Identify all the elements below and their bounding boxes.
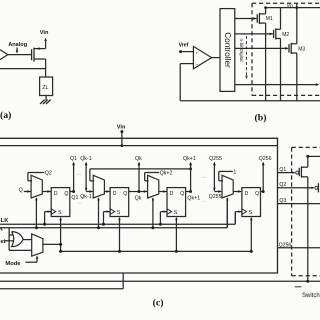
wire mux output to D input	[233, 191, 241, 193]
wire op-amp output to controller	[212, 57, 220, 59]
svg-text:D: D	[170, 191, 174, 197]
node rail junction M1	[264, 6, 267, 9]
wire mux output to D input	[159, 191, 167, 193]
svg-text:Q2: Q2	[45, 170, 52, 176]
wire buffer output to gate	[8, 54, 32, 56]
wire Qk to mux3	[139, 191, 147, 193]
wire ZL to ground	[45, 96, 47, 101]
wire backward input 1	[219, 170, 233, 172]
svg-text:...: ...	[78, 200, 83, 206]
node switch rail junction	[306, 155, 309, 158]
svg-text:(a): (a)	[0, 110, 11, 121]
wire source down to load ZL	[45, 48, 47, 50]
svg-text:Vin: Vin	[287, 3, 294, 8]
OR gate	[12, 232, 24, 247]
wire controller output to M1 gate	[235, 18, 257, 20]
wire mode select into mux5	[36, 257, 38, 263]
power rail Vin part b	[266, 7, 320, 9]
svg-text:M2: M2	[282, 32, 289, 38]
svg-text:Qk+1: Qk+1	[187, 195, 200, 201]
svg-text:S: S	[174, 210, 178, 216]
clock pin triangle	[51, 209, 56, 215]
node rail junction M3	[295, 6, 298, 9]
set bus line	[61, 250, 252, 252]
wire Vref to op-amp	[181, 51, 194, 53]
wire mux5 lower input	[9, 249, 32, 251]
svg-text:Reset: Reset	[0, 239, 6, 245]
wire feedback to left edge	[0, 68, 46, 70]
wire drain to Vin	[45, 40, 47, 49]
transistor M2	[274, 8, 290, 101]
wire input Q255 from top	[213, 163, 215, 191]
clock pin triangle	[167, 209, 172, 215]
wire direction line corner to mux4 select	[226, 198, 228, 228]
wire mux output to D input	[104, 191, 109, 193]
svg-text:M3: M3	[298, 46, 305, 52]
multiplexer	[93, 175, 104, 198]
svg-text:−: −	[196, 62, 199, 67]
svg-text:D: D	[113, 191, 117, 197]
transistor M1	[257, 8, 273, 101]
multiplexer	[222, 175, 233, 198]
D flip-flop	[242, 188, 261, 217]
node Vin input	[120, 130, 123, 133]
node Q output junction	[138, 190, 141, 193]
svg-text:n-bit Digital: n-bit Digital	[239, 39, 244, 62]
svg-text:Q255: Q255	[209, 194, 222, 200]
multiplexer clock/set mux5	[32, 234, 43, 256]
inner rail line part c	[0, 145, 278, 147]
dashed n-bit bus arrow	[246, 36, 248, 76]
wire switch S1 source down to output rail	[307, 177, 309, 281]
svg-text:S: S	[249, 210, 253, 216]
wire controller output to M3 gate	[235, 47, 288, 49]
switch array rail	[308, 155, 320, 157]
transistor pass device part a	[31, 49, 33, 60]
svg-text:Q1: Q1	[70, 156, 77, 162]
set feed riser	[175, 218, 177, 252]
wire reset drop from direction line to OR gate and mux5 lower input	[8, 228, 10, 251]
switch transistor S2 (clipped)	[315, 186, 318, 189]
dashed box power stage part b	[252, 2, 320, 4]
transistor M3	[289, 8, 305, 101]
svg-text:Q: Q	[19, 188, 23, 194]
svg-text:Vref: Vref	[179, 42, 189, 48]
dashed box switch array	[292, 146, 320, 148]
svg-text:+: +	[195, 51, 198, 56]
svg-text:Qk+1: Qk+1	[183, 156, 196, 162]
clock bus line	[0, 223, 235, 225]
wire reset label to OR gate	[4, 240, 13, 242]
switch transistor S1	[298, 168, 300, 176]
svg-text:Controller: Controller	[223, 32, 232, 68]
svg-text:Qk+2: Qk+2	[160, 170, 173, 176]
clock feed wire	[235, 211, 241, 213]
svg-text:Q: Q	[180, 191, 184, 197]
node set bus junctions	[59, 243, 62, 246]
load ZL	[40, 77, 53, 96]
svg-text:Q: Q	[255, 191, 259, 197]
svg-text:Vin: Vin	[117, 125, 126, 131]
buffer amplifier (clipped at left edge)	[0, 50, 8, 60]
svg-text:Qk-1: Qk-1	[80, 156, 92, 162]
svg-text:CLK: CLK	[0, 218, 9, 224]
wire Q output up to label	[73, 163, 75, 192]
node Vref input dot	[179, 50, 182, 53]
node Vin tap on rail	[121, 144, 124, 147]
wire Q input to mux1	[24, 191, 31, 193]
svg-text:1: 1	[233, 169, 236, 175]
svg-text:...: ...	[201, 174, 206, 180]
output node wire to right edge	[180, 100, 320, 102]
node Q output junction	[189, 190, 192, 193]
stub Vin to rail	[296, 3, 298, 7]
D flip-flop	[51, 188, 70, 217]
svg-text:Vin: Vin	[40, 30, 49, 36]
wire controller bottom output bus with arrow	[235, 84, 317, 86]
svg-text:Q: Q	[123, 191, 127, 197]
D flip-flop	[167, 188, 186, 217]
D flip-flop	[110, 188, 129, 217]
svg-text:Q256: Q256	[259, 156, 272, 162]
multiplexer	[31, 175, 42, 198]
wire controller output to M2 gate	[235, 33, 273, 35]
svg-text:...: ...	[77, 171, 82, 177]
mux select riser from direction line	[226, 198, 228, 228]
svg-text:(b): (b)	[255, 113, 267, 124]
set feed riser	[250, 218, 252, 252]
clock feed wire	[45, 211, 51, 213]
wire backward input Q2	[28, 172, 44, 174]
set feed riser	[119, 218, 121, 252]
svg-text:Switch a: Switch a	[302, 293, 320, 299]
arrow Analog onto gate wire	[16, 48, 18, 52]
wire clock bus corner up to FF4 clock	[234, 212, 236, 225]
wire Q output	[70, 191, 74, 193]
wire input Qk-1 from top	[85, 163, 87, 191]
wire feedback from output node to op-amp inverting input	[180, 63, 193, 65]
wire Q3 port line	[278, 203, 320, 205]
wire OR output to mux5	[23, 239, 32, 241]
wire Q output	[129, 191, 139, 193]
node output rail junction	[306, 280, 309, 283]
wire mux5 output to set bus	[43, 243, 61, 245]
node clock taps	[43, 223, 46, 226]
svg-text:Q: Q	[64, 191, 68, 197]
wire Q output	[186, 191, 191, 193]
svg-text:Q255: Q255	[209, 156, 222, 162]
clock pin triangle	[242, 209, 247, 215]
svg-text:D: D	[54, 191, 58, 197]
wire Q2 port line	[278, 187, 314, 189]
svg-text:...: ...	[201, 197, 206, 203]
multiplexer	[148, 175, 159, 198]
node select taps	[35, 226, 38, 229]
svg-text:M1: M1	[266, 16, 273, 22]
wire Q output	[261, 191, 264, 193]
node Q output junction	[72, 190, 75, 193]
op-amp U1	[193, 46, 211, 68]
direction line	[0, 227, 227, 229]
wire bottom port of shift register box	[0, 288, 123, 290]
mux select riser from direction line	[152, 198, 154, 228]
clock feed wire	[104, 211, 110, 213]
clock pin triangle	[110, 209, 115, 215]
box shift register part c	[0, 138, 278, 273]
wire Q output up to label	[262, 163, 264, 192]
svg-text:D: D	[245, 191, 249, 197]
wire mux output to D input	[42, 191, 50, 193]
wire backward input Qk+2	[145, 172, 159, 174]
svg-text:(c): (c)	[153, 297, 164, 308]
wire Q256 port line	[278, 247, 320, 249]
ground part a	[46, 100, 51, 104]
svg-text:S: S	[117, 210, 121, 216]
wire Q output up to label	[138, 163, 140, 192]
clock feed wire	[160, 211, 166, 213]
mux select riser from direction line	[98, 198, 100, 228]
controller block	[220, 9, 235, 92]
mux select riser from direction line	[35, 198, 37, 228]
svg-text:Qk: Qk	[135, 196, 142, 202]
wire Q1 port line	[278, 172, 295, 174]
wire backward input from Qk+1 to mux2	[90, 168, 191, 170]
svg-text:Analog: Analog	[8, 42, 28, 48]
svg-text:S: S	[58, 210, 62, 216]
svg-text:Qk: Qk	[135, 156, 142, 162]
wire Vin into box	[121, 132, 123, 146]
set feed riser	[60, 218, 62, 252]
output rail bottom	[0, 280, 320, 282]
svg-text:ZL: ZL	[42, 85, 48, 91]
label switch array (clipped)	[295, 286, 302, 288]
node Q output junction	[262, 190, 265, 193]
wire Q output up to label	[190, 163, 192, 192]
svg-text:Mode: Mode	[5, 261, 21, 267]
